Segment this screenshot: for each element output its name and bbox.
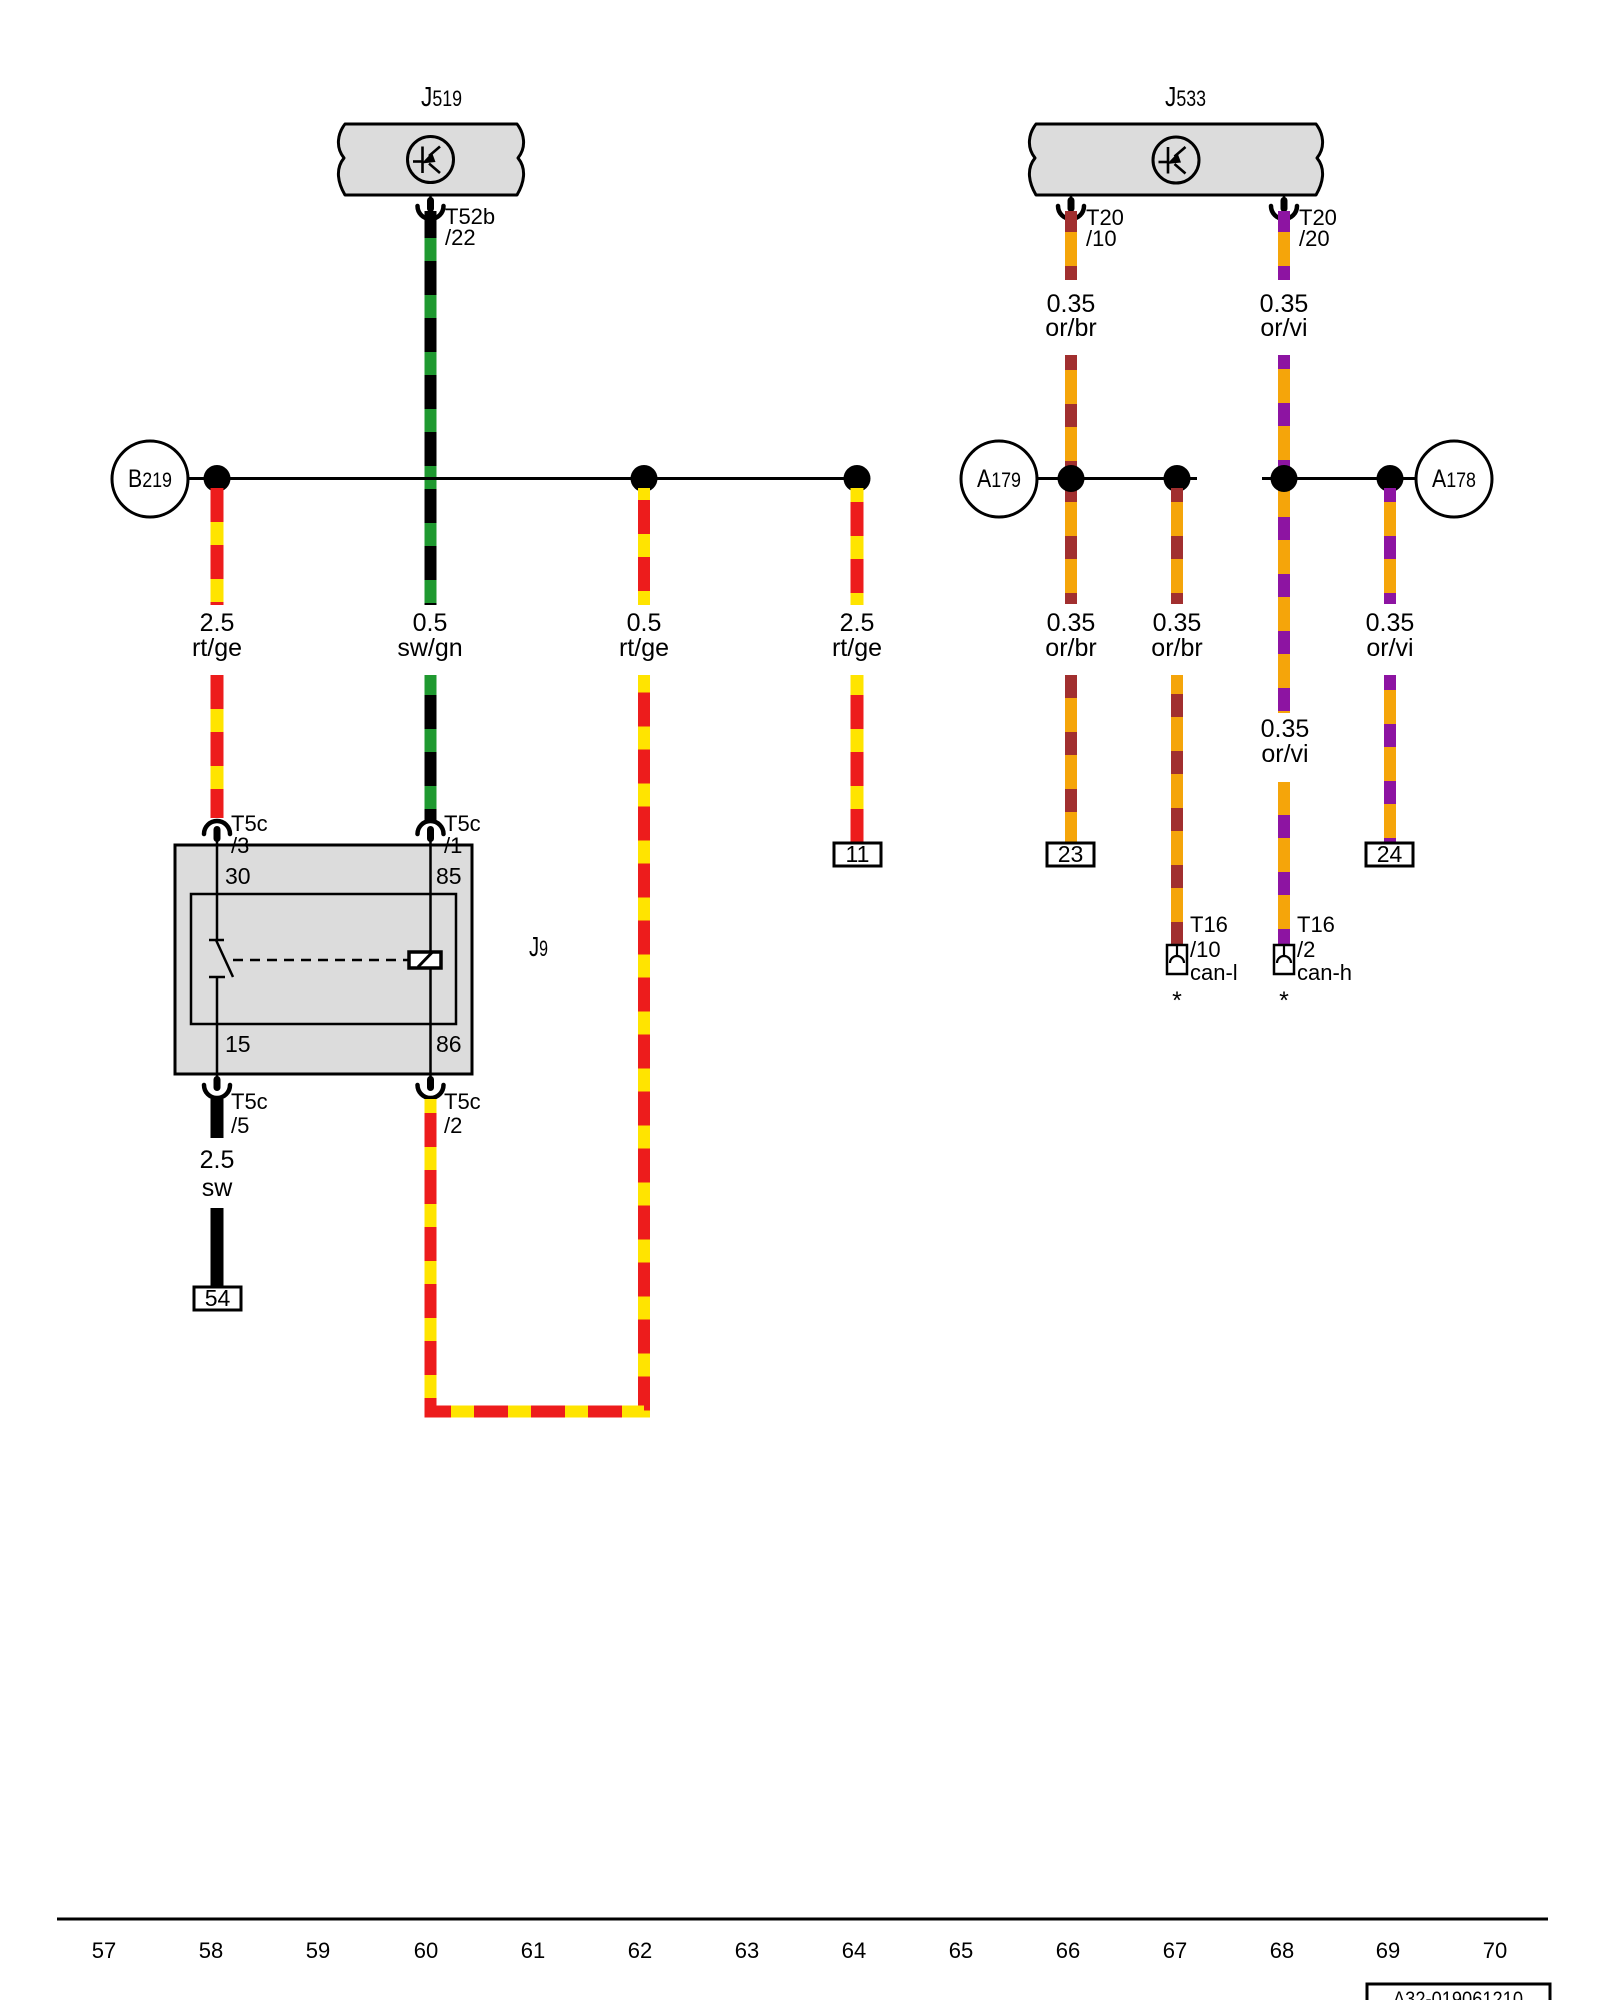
svg-text:T5c: T5c xyxy=(444,1089,481,1114)
svg-text:23: 23 xyxy=(1058,841,1084,867)
svg-text:0.35: 0.35 xyxy=(1153,609,1202,637)
connector T5c/5 below relay xyxy=(204,1074,268,1138)
svg-text:/2: /2 xyxy=(444,1113,462,1138)
wire 0.35 or/br col1071 lower xyxy=(1065,675,1077,843)
junction dot at 1390 xyxy=(1377,465,1404,492)
relay actuation dashed line xyxy=(233,959,409,962)
relay switch contact xyxy=(209,940,233,1074)
svg-text:A178: A178 xyxy=(1432,465,1476,493)
svg-text:sw/gn: sw/gn xyxy=(397,634,462,662)
svg-text:rt/ge: rt/ge xyxy=(619,634,669,662)
grid baseline xyxy=(57,1918,1548,1921)
svg-text:62: 62 xyxy=(628,1938,652,1963)
node A178 xyxy=(1416,441,1492,517)
svg-text:0.35: 0.35 xyxy=(1047,609,1096,637)
node B219 xyxy=(112,441,188,517)
svg-text:/1: /1 xyxy=(444,833,462,858)
wire 0.35 or/br col1177 lower xyxy=(1171,675,1183,945)
wire 0.35 or/br col1071 top stub xyxy=(1065,211,1077,280)
svg-text:/20: /20 xyxy=(1299,226,1330,251)
svg-text:or/vi: or/vi xyxy=(1366,634,1413,662)
bus line to A178 xyxy=(1262,477,1416,480)
svg-text:2.5: 2.5 xyxy=(840,609,875,637)
control unit symbol (circle with arrow) in J533 xyxy=(1153,137,1199,183)
relay coil xyxy=(409,952,441,968)
svg-text:59: 59 xyxy=(306,1938,330,1963)
svg-text:70: 70 xyxy=(1483,1938,1507,1963)
svg-text:/10: /10 xyxy=(1190,937,1221,962)
svg-text:0.5: 0.5 xyxy=(627,609,662,637)
svg-text:A32-019061210: A32-019061210 xyxy=(1393,1988,1523,2000)
wire 0.5 rt/ge U-shape from T5c/2 to node 644 xyxy=(431,675,645,1412)
svg-text:61: 61 xyxy=(521,1938,545,1963)
svg-text:can-l: can-l xyxy=(1190,960,1238,985)
control unit symbol (circle with arrow) in J519 xyxy=(408,137,454,183)
wire 0.5 sw/gn col430 lower segment to relay xyxy=(425,675,437,820)
diagram code box xyxy=(1367,1984,1550,2000)
svg-text:/3: /3 xyxy=(231,833,249,858)
svg-text:57: 57 xyxy=(92,1938,116,1963)
control unit J519 box xyxy=(338,124,523,195)
svg-text:/5: /5 xyxy=(231,1113,249,1138)
svg-text:24: 24 xyxy=(1377,841,1403,867)
wire 0.35 or/br col1177 upper xyxy=(1171,488,1183,604)
label 0.35 or/vi col1284 mid xyxy=(1261,715,1310,768)
wire 2.5 sw lower xyxy=(211,1208,224,1287)
svg-text:or/br: or/br xyxy=(1151,634,1202,662)
connector T20/10 at J533 xyxy=(1058,195,1124,251)
connector T5c/1 at relay xyxy=(418,811,481,858)
svg-text:64: 64 xyxy=(842,1938,866,1963)
svg-text:30: 30 xyxy=(225,863,251,889)
label 0.35 or/vi top xyxy=(1260,290,1309,342)
wire 0.5 rt/ge col644 upper xyxy=(638,488,650,605)
svg-text:/22: /22 xyxy=(445,225,476,250)
svg-text:15: 15 xyxy=(225,1031,251,1057)
svg-text:rt/ge: rt/ge xyxy=(832,634,882,662)
svg-text:sw: sw xyxy=(202,1174,234,1202)
relay pin 85/86 lead xyxy=(429,845,432,1074)
svg-text:69: 69 xyxy=(1376,1938,1400,1963)
svg-text:65: 65 xyxy=(949,1938,973,1963)
svg-text:A179: A179 xyxy=(977,465,1021,493)
grid numbers 57-70 xyxy=(92,1938,1507,1963)
wire 0.35 or/vi col1284 middle xyxy=(1278,355,1290,713)
svg-text:T16: T16 xyxy=(1190,912,1228,937)
svg-text:J9: J9 xyxy=(529,931,548,962)
svg-text:60: 60 xyxy=(414,1938,438,1963)
svg-text:86: 86 xyxy=(436,1031,462,1057)
svg-text:T5c: T5c xyxy=(231,1089,268,1114)
svg-text:/10: /10 xyxy=(1086,226,1117,251)
wire 2.5 sw upper stub xyxy=(211,1099,224,1138)
svg-text:*: * xyxy=(1279,987,1289,1015)
svg-text:or/vi: or/vi xyxy=(1261,740,1308,768)
label 0.35 or/vi col1390 xyxy=(1366,609,1415,662)
terminal 54 box xyxy=(194,1285,241,1311)
svg-text:2.5: 2.5 xyxy=(200,609,235,637)
connector T20/20 at J533 xyxy=(1271,195,1337,251)
svg-text:0.5: 0.5 xyxy=(413,609,448,637)
terminal 11 box xyxy=(834,841,881,867)
svg-text:*: * xyxy=(1172,987,1182,1015)
label 2.5 rt/ge col217 xyxy=(192,609,242,662)
svg-text:or/br: or/br xyxy=(1045,634,1096,662)
terminal 24 box xyxy=(1366,841,1413,867)
svg-text:J533: J533 xyxy=(1165,81,1206,112)
label 0.5 rt/ge col644 xyxy=(619,609,669,662)
wire 0.35 or/vi col1390 upper xyxy=(1384,488,1396,604)
label 2.5 rt/ge col857 xyxy=(832,609,882,662)
junction dot at 644 xyxy=(631,465,658,492)
connector T16/10 can-l xyxy=(1167,912,1238,985)
label 0.5 sw/gn xyxy=(397,609,462,662)
wire 2.5 rt/ge col217 upper xyxy=(211,488,224,605)
svg-text:68: 68 xyxy=(1270,1938,1294,1963)
junction dot at 857 xyxy=(844,465,871,492)
junction dot at 1177 xyxy=(1164,465,1191,492)
connector T16/2 can-h xyxy=(1274,912,1352,985)
svg-text:or/br: or/br xyxy=(1045,314,1096,342)
svg-text:rt/ge: rt/ge xyxy=(192,634,242,662)
svg-text:T16: T16 xyxy=(1297,912,1335,937)
junction dot at 217 xyxy=(204,465,231,492)
svg-text:J519: J519 xyxy=(421,81,462,112)
terminal 23 box xyxy=(1047,841,1094,867)
svg-text:B219: B219 xyxy=(128,465,172,493)
junction dot at 1071 xyxy=(1058,465,1085,492)
connector T5c/2 below relay xyxy=(418,1074,481,1138)
svg-text:67: 67 xyxy=(1163,1938,1187,1963)
wire bus line from B219 xyxy=(188,477,857,480)
node A179 xyxy=(961,441,1037,517)
wire 2.5 rt/ge col857 lower xyxy=(851,675,864,843)
svg-text:0.35: 0.35 xyxy=(1261,715,1310,743)
connector T52b/22 at J519 xyxy=(418,195,496,250)
svg-text:2.5: 2.5 xyxy=(200,1146,235,1174)
gateway J533 box xyxy=(1029,124,1322,195)
svg-text:can-h: can-h xyxy=(1297,960,1352,985)
wire sw/gn from J519 to node (upper segment) xyxy=(425,211,437,605)
svg-text:54: 54 xyxy=(205,1285,231,1311)
svg-text:/2: /2 xyxy=(1297,937,1315,962)
wire 2.5 rt/ge col217 lower xyxy=(211,675,224,818)
label 0.35 or/br top xyxy=(1045,290,1096,342)
svg-text:11: 11 xyxy=(846,841,870,867)
connector T5c/3 at relay xyxy=(204,811,268,858)
svg-text:85: 85 xyxy=(436,863,462,889)
label 2.5 sw xyxy=(200,1146,235,1202)
relay pin 30 lead xyxy=(216,845,219,940)
wire 0.35 or/br col1071 middle xyxy=(1065,355,1077,604)
svg-text:66: 66 xyxy=(1056,1938,1080,1963)
svg-text:or/vi: or/vi xyxy=(1260,314,1307,342)
label J519 xyxy=(421,81,462,112)
wire 0.35 or/vi col1284 top stub xyxy=(1278,211,1290,280)
bus line from A179 xyxy=(1037,477,1197,480)
wire 2.5 rt/ge col857 upper xyxy=(851,488,864,605)
svg-text:0.35: 0.35 xyxy=(1366,609,1415,637)
relay J9 box xyxy=(175,845,472,1074)
svg-text:58: 58 xyxy=(199,1938,223,1963)
label 0.35 or/br col1071 mid xyxy=(1045,609,1096,662)
svg-text:63: 63 xyxy=(735,1938,759,1963)
wire 0.35 or/vi col1390 lower xyxy=(1384,675,1396,843)
label 0.35 or/br col1177 xyxy=(1151,609,1202,662)
junction dot at 1284 xyxy=(1271,465,1298,492)
wire 0.35 or/vi col1284 lower xyxy=(1278,782,1290,945)
